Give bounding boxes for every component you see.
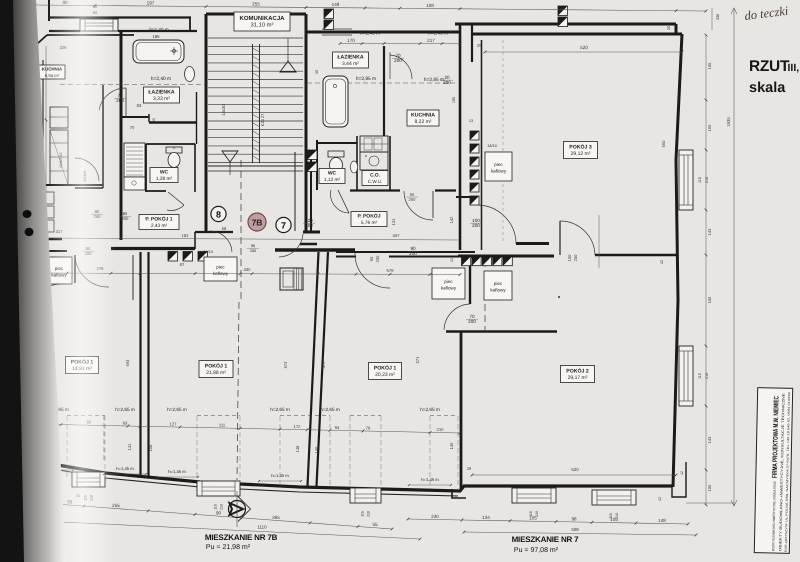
svg-text:40: 40 bbox=[315, 70, 319, 74]
svg-text:1110: 1110 bbox=[257, 525, 267, 530]
svg-text:h=2,85 m: h=2,85 m bbox=[356, 76, 376, 82]
svg-text:197: 197 bbox=[147, 1, 155, 6]
svg-text:14/14: 14/14 bbox=[487, 144, 497, 148]
svg-text:WC: WC bbox=[160, 169, 169, 175]
svg-text:100: 100 bbox=[567, 254, 572, 261]
svg-text:210: 210 bbox=[705, 373, 709, 379]
svg-text:572: 572 bbox=[321, 361, 326, 368]
svg-text:105: 105 bbox=[707, 62, 712, 69]
svg-text:520: 520 bbox=[580, 45, 588, 50]
svg-text:piec: piec bbox=[444, 279, 453, 284]
svg-text:70: 70 bbox=[130, 125, 135, 130]
svg-text:90: 90 bbox=[251, 244, 255, 248]
svg-text:143: 143 bbox=[707, 228, 712, 235]
svg-text:h=2,65 m: h=2,65 m bbox=[420, 407, 440, 412]
svg-text:108: 108 bbox=[426, 3, 434, 8]
svg-text:105: 105 bbox=[707, 484, 712, 491]
svg-text:94: 94 bbox=[335, 425, 340, 430]
svg-text:200: 200 bbox=[116, 98, 124, 103]
svg-text:146: 146 bbox=[449, 442, 454, 449]
svg-text:143: 143 bbox=[707, 436, 712, 443]
svg-text:42: 42 bbox=[660, 260, 664, 264]
svg-text:105: 105 bbox=[529, 516, 537, 521]
svg-text:POKÓJ 1: POKÓJ 1 bbox=[374, 364, 397, 371]
svg-text:115: 115 bbox=[698, 373, 702, 379]
svg-text:7: 7 bbox=[281, 220, 286, 230]
svg-text:115: 115 bbox=[361, 511, 365, 517]
svg-text:kaflowy: kaflowy bbox=[441, 286, 457, 291]
svg-text:90: 90 bbox=[216, 511, 222, 516]
svg-text:200: 200 bbox=[305, 223, 313, 228]
svg-text:III,: III, bbox=[788, 62, 800, 74]
svg-text:Pu = 21,98 m²: Pu = 21,98 m² bbox=[206, 544, 251, 551]
svg-text:h=2,40 m: h=2,40 m bbox=[151, 76, 171, 82]
svg-text:93: 93 bbox=[123, 420, 128, 425]
svg-text:POKÓJ 2: POKÓJ 2 bbox=[566, 367, 589, 374]
svg-text:170: 170 bbox=[347, 38, 355, 43]
svg-text:h=1,45 m: h=1,45 m bbox=[116, 466, 134, 471]
svg-text:168: 168 bbox=[148, 444, 153, 451]
svg-text:141: 141 bbox=[127, 443, 132, 450]
svg-text:K30 27: K30 27 bbox=[260, 113, 265, 126]
svg-text:O: O bbox=[173, 146, 176, 150]
svg-text:20,23 m²: 20,23 m² bbox=[375, 372, 395, 378]
svg-text:ŁAZIENKA: ŁAZIENKA bbox=[337, 54, 363, 60]
svg-text:210: 210 bbox=[705, 177, 709, 183]
svg-text:piec: piec bbox=[216, 265, 225, 270]
svg-text:87: 87 bbox=[180, 262, 185, 267]
svg-text:165: 165 bbox=[707, 124, 712, 131]
svg-text:20: 20 bbox=[667, 26, 671, 30]
svg-text:3,33 m²: 3,33 m² bbox=[153, 96, 170, 102]
svg-text:KOMUNIKACJA: KOMUNIKACJA bbox=[240, 15, 286, 22]
svg-text:KUCHNIA: KUCHNIA bbox=[411, 112, 435, 118]
svg-text:P. POKÓJ: P. POKÓJ bbox=[358, 212, 381, 219]
svg-text:29,12 m²: 29,12 m² bbox=[571, 151, 591, 157]
svg-text:115: 115 bbox=[214, 504, 218, 510]
svg-text:42: 42 bbox=[680, 471, 684, 475]
svg-text:76: 76 bbox=[366, 426, 371, 431]
svg-text:RZUT: RZUT bbox=[749, 58, 790, 75]
svg-text:21,88 m²: 21,88 m² bbox=[206, 370, 226, 376]
svg-text:508: 508 bbox=[571, 527, 579, 532]
svg-text:POKÓJ 1: POKÓJ 1 bbox=[205, 362, 228, 369]
svg-text:29: 29 bbox=[467, 466, 472, 471]
svg-text:200: 200 bbox=[573, 254, 578, 261]
svg-text:200: 200 bbox=[409, 197, 417, 202]
svg-text:98: 98 bbox=[571, 516, 577, 521]
svg-text:172: 172 bbox=[294, 424, 302, 429]
svg-text:520: 520 bbox=[571, 467, 579, 472]
svg-text:h=2,65 m: h=2,65 m bbox=[320, 407, 340, 412]
svg-text:2,43 m²: 2,43 m² bbox=[151, 223, 168, 229]
svg-text:29,17 m²: 29,17 m² bbox=[568, 375, 588, 381]
svg-text:210: 210 bbox=[367, 511, 371, 517]
svg-text:200: 200 bbox=[409, 251, 417, 256]
svg-text:h=1,45 m: h=1,45 m bbox=[271, 473, 289, 478]
svg-text:146: 146 bbox=[314, 446, 319, 453]
svg-text:8: 8 bbox=[216, 209, 221, 219]
svg-text:560: 560 bbox=[661, 140, 666, 147]
svg-text:h=2,65 m: h=2,65 m bbox=[270, 407, 290, 412]
svg-text:90: 90 bbox=[369, 256, 374, 261]
svg-text:564: 564 bbox=[125, 359, 130, 366]
svg-text:573: 573 bbox=[283, 361, 288, 368]
svg-text:h=1,45 m: h=1,45 m bbox=[421, 477, 439, 482]
svg-text:14/14: 14/14 bbox=[203, 250, 213, 254]
svg-text:C.W.U.: C.W.U. bbox=[368, 179, 383, 184]
svg-text:149: 149 bbox=[332, 2, 340, 7]
svg-text:148: 148 bbox=[295, 445, 300, 452]
svg-text:MIESZKANIE NR 7: MIESZKANIE NR 7 bbox=[512, 535, 580, 544]
svg-text:142: 142 bbox=[449, 216, 454, 223]
svg-text:piec: piec bbox=[494, 162, 503, 167]
svg-text:200: 200 bbox=[250, 249, 256, 253]
svg-text:h=1,45 m: h=1,45 m bbox=[168, 469, 186, 474]
svg-text:210: 210 bbox=[437, 427, 445, 432]
svg-text:430: 430 bbox=[244, 267, 252, 272]
svg-text:200: 200 bbox=[394, 58, 402, 63]
svg-text:148: 148 bbox=[658, 518, 666, 523]
svg-text:210: 210 bbox=[220, 504, 224, 510]
svg-text:134: 134 bbox=[482, 515, 490, 520]
svg-text:C.O.: C.O. bbox=[370, 172, 380, 178]
svg-text:83: 83 bbox=[137, 103, 142, 108]
svg-text:579: 579 bbox=[387, 268, 395, 273]
svg-text:31,10 m²: 31,10 m² bbox=[251, 22, 274, 29]
svg-text:155: 155 bbox=[452, 97, 456, 103]
svg-text:POKÓJ 3: POKÓJ 3 bbox=[569, 143, 592, 150]
svg-text:407: 407 bbox=[393, 233, 401, 238]
svg-text:111: 111 bbox=[219, 422, 226, 427]
svg-text:kaflowy: kaflowy bbox=[491, 169, 507, 174]
svg-text:29: 29 bbox=[477, 43, 482, 48]
svg-text:h=1,43 m: h=1,43 m bbox=[360, 31, 380, 37]
svg-text:217: 217 bbox=[427, 38, 435, 43]
svg-text:200: 200 bbox=[375, 255, 380, 262]
svg-text:ŁAZIENKA: ŁAZIENKA bbox=[148, 89, 174, 95]
svg-text:200: 200 bbox=[443, 80, 451, 85]
svg-text:5,76 m²: 5,76 m² bbox=[361, 220, 378, 226]
svg-text:h=1,40 m: h=1,40 m bbox=[149, 27, 168, 32]
svg-text:MIESZKANIE NR 7B: MIESZKANIE NR 7B bbox=[205, 533, 278, 542]
svg-text:365: 365 bbox=[272, 515, 280, 520]
svg-text:127: 127 bbox=[170, 421, 178, 426]
svg-text:42: 42 bbox=[658, 497, 662, 501]
svg-text:105: 105 bbox=[610, 517, 618, 522]
svg-text:h=1,43 m: h=1,43 m bbox=[428, 31, 448, 37]
svg-text:185: 185 bbox=[153, 34, 161, 39]
svg-text:kaflowy: kaflowy bbox=[490, 288, 506, 293]
svg-text:230: 230 bbox=[431, 514, 439, 519]
svg-text:115: 115 bbox=[698, 177, 702, 183]
svg-text:8,22 m²: 8,22 m² bbox=[415, 119, 432, 125]
svg-text:55: 55 bbox=[372, 522, 378, 527]
svg-text:183: 183 bbox=[182, 233, 189, 238]
svg-text:23: 23 bbox=[450, 258, 454, 262]
svg-text:1,12 m²: 1,12 m² bbox=[324, 177, 341, 183]
svg-text:200: 200 bbox=[472, 223, 480, 228]
svg-text:h=2,65 m: h=2,65 m bbox=[167, 407, 187, 412]
svg-text:piec: piec bbox=[494, 281, 503, 286]
svg-text:105: 105 bbox=[707, 296, 712, 303]
svg-text:200: 200 bbox=[122, 216, 129, 221]
svg-text:3,44 m²: 3,44 m² bbox=[342, 61, 359, 67]
svg-text:h=2,65 m: h=2,65 m bbox=[115, 407, 135, 412]
svg-text:Pu = 97,08 m²: Pu = 97,08 m² bbox=[514, 547, 559, 554]
svg-text:7B: 7B bbox=[252, 218, 263, 228]
svg-text:571: 571 bbox=[415, 356, 420, 363]
svg-text:1,28 m²: 1,28 m² bbox=[156, 176, 173, 182]
svg-text:200: 200 bbox=[468, 319, 476, 324]
svg-text:18x30: 18x30 bbox=[221, 104, 226, 116]
svg-text:255: 255 bbox=[252, 1, 260, 6]
svg-text:skala: skala bbox=[749, 80, 786, 96]
svg-text:P. POKÓJ 1: P. POKÓJ 1 bbox=[145, 215, 172, 222]
svg-text:131: 131 bbox=[391, 218, 396, 225]
svg-text:13: 13 bbox=[469, 119, 473, 123]
svg-text:68: 68 bbox=[222, 226, 227, 231]
svg-text:25: 25 bbox=[152, 118, 156, 122]
svg-text:WC: WC bbox=[328, 170, 337, 176]
svg-text:336: 336 bbox=[716, 14, 720, 20]
svg-text:1935: 1935 bbox=[726, 117, 731, 127]
